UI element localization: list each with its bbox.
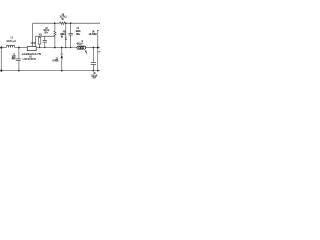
- wire FB-BP horizontal: [36, 35, 55, 37]
- wire R3 upper lead: [54, 23, 56, 31]
- svg-text:R: R: [99, 52, 101, 54]
- label R1: [60, 12, 67, 21]
- label C3: [76, 26, 82, 36]
- svg-text:400 V: 400 V: [76, 32, 80, 36]
- diode D2 small squiggle below L1: [85, 50, 87, 52]
- capacitor C3 on x70.6: [70, 23, 72, 33]
- label U1: [22, 52, 41, 61]
- wire input source vertical: [0, 48, 2, 71]
- capacitor C2: [44, 36, 46, 40]
- diode D1 freewheel: [61, 48, 63, 55]
- wire mid rail L2 to U1: [15, 47, 28, 49]
- resistor R2 box style: [38, 37, 40, 44]
- resistor R3 vertical zigzag: [54, 31, 56, 36]
- wire BP pin vertical: [35, 36, 37, 46]
- svg-text:LNK304PN: LNK304PN: [23, 57, 36, 61]
- svg-text:UF4005: UF4005: [52, 59, 59, 63]
- node input bottom terminal: [0, 70, 2, 72]
- inductor L2: [6, 45, 14, 47]
- label R3: [60, 30, 66, 39]
- svg-text:1000 µH: 1000 µH: [6, 39, 16, 43]
- capacitor C1 input bulk: [18, 48, 20, 59]
- inductor L1 loops: [77, 46, 86, 49]
- label D4: [89, 30, 98, 36]
- wire FB vertical from corner down to U1: [32, 23, 34, 46]
- svg-text:680 µH: 680 µH: [77, 41, 83, 45]
- label D1: [52, 56, 59, 62]
- wire mid rail U1 to L1: [36, 47, 77, 49]
- svg-text:35 V: 35 V: [92, 76, 96, 80]
- label C4 output cap: [91, 71, 98, 80]
- wire R3 lower lead to source node: [54, 36, 56, 47]
- node dot D1 top: [61, 47, 63, 49]
- node input top terminal: [0, 46, 2, 48]
- wire mid rail L1 to right edge: [86, 47, 100, 49]
- node dot top rail x65.8: [65, 22, 67, 24]
- node dot C4 tap: [93, 47, 95, 49]
- svg-text:400 V: 400 V: [12, 57, 17, 61]
- wire mid rail left of L2: [0, 47, 6, 49]
- wire bottom rail: [0, 70, 100, 72]
- svg-text:50 V: 50 V: [44, 30, 48, 34]
- diode D4 vertical on x65.8: [65, 23, 67, 37]
- wire top rail right segment: [65, 22, 100, 24]
- svg-text:MUR160: MUR160: [89, 32, 98, 36]
- svg-text:L2: L2: [11, 35, 14, 39]
- label C1 input cap: [12, 53, 17, 61]
- node dot C1 tap: [18, 47, 20, 49]
- wire top rail left segment: [33, 22, 60, 24]
- op IC U1 box: [27, 47, 36, 51]
- node dot top rail x70.6: [70, 22, 72, 24]
- resistor R1: [60, 22, 66, 25]
- label L2: [6, 35, 16, 43]
- label L1: [77, 39, 84, 46]
- node dot R3 bottom: [54, 47, 56, 49]
- label C2 bypass: [43, 26, 50, 34]
- wire load vertical right: [97, 31, 99, 71]
- node dot top rail x54.7: [54, 22, 56, 24]
- capacitor C4 output: [92, 48, 94, 63]
- svg-text:BP: BP: [33, 42, 35, 45]
